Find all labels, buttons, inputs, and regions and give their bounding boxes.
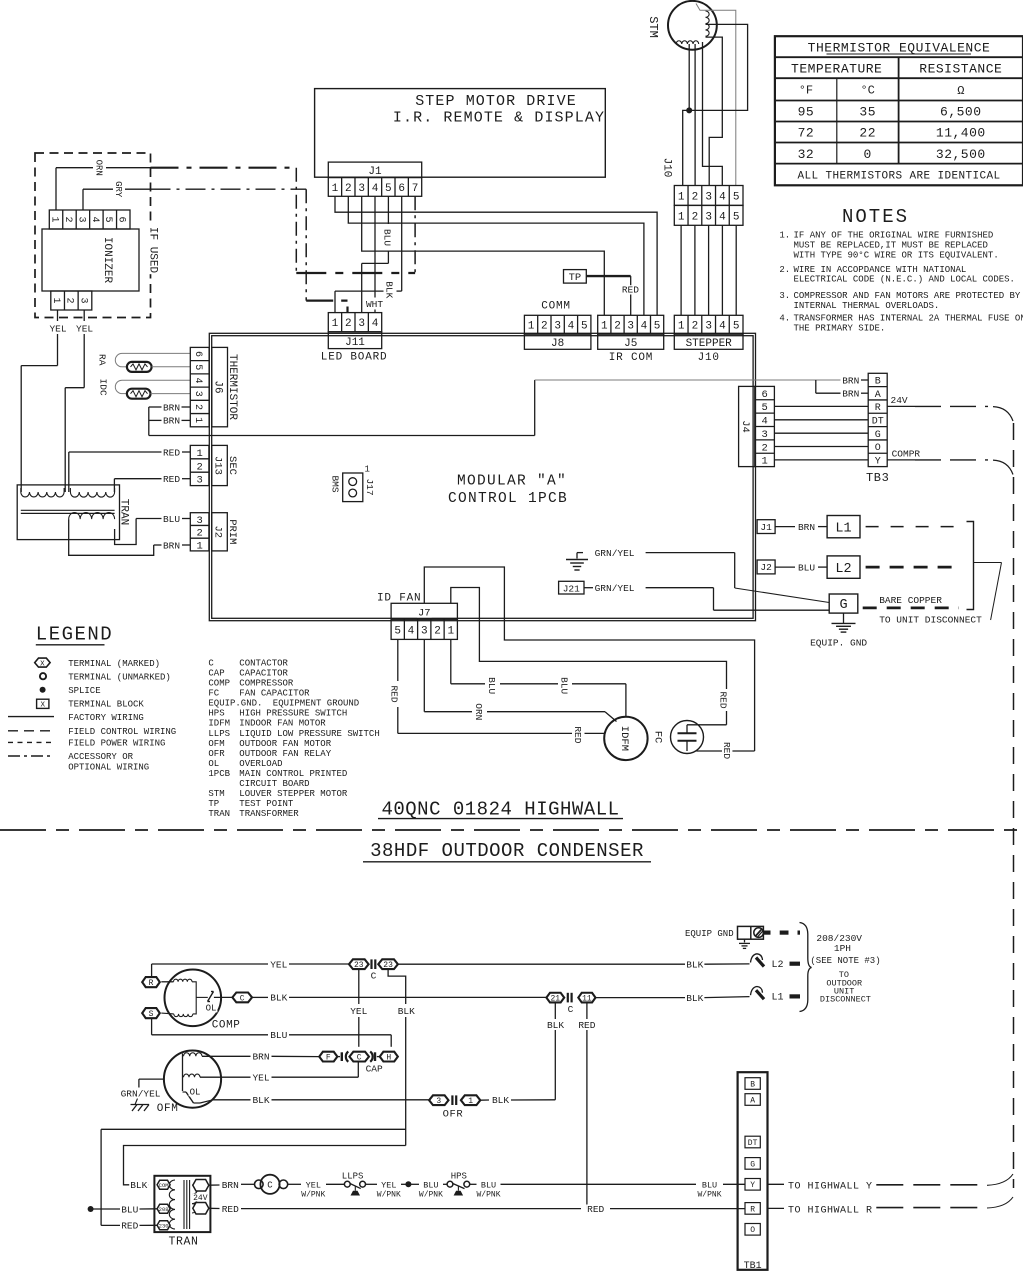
svg-text:1: 1 <box>678 211 685 223</box>
svg-text:BRN: BRN <box>163 402 180 413</box>
connector J17 BMS <box>343 465 370 502</box>
label BLU W/PNK at TB1 <box>696 1181 722 1200</box>
svg-text:BLK: BLK <box>252 1095 269 1106</box>
connector J2 label box <box>212 513 228 551</box>
legend terminal unmarked symbol <box>40 673 46 679</box>
svg-text:OL: OL <box>208 759 219 769</box>
svg-text:FC: FC <box>208 689 219 699</box>
svg-text:TRAN: TRAN <box>208 809 230 819</box>
svg-text:TB1: TB1 <box>744 1261 762 1271</box>
svg-text:DISCONNECT: DISCONNECT <box>820 995 871 1005</box>
label J10 rotated <box>661 158 673 178</box>
splice on STM pin1 wire <box>686 44 692 113</box>
svg-text:BLU: BLU <box>423 1181 438 1191</box>
svg-text:OUTDOOR FAN MOTOR: OUTDOOR FAN MOTOR <box>239 739 331 749</box>
svg-text:2: 2 <box>761 442 767 454</box>
svg-text:BLK: BLK <box>398 1006 415 1017</box>
svg-text:I.R. REMOTE & DISPLAY: I.R. REMOTE & DISPLAY <box>393 110 605 127</box>
label OFM <box>157 1103 179 1115</box>
connector J1 pins 1-7 <box>328 178 421 197</box>
svg-text:Y: Y <box>750 1181 755 1190</box>
connector J6 pins 6-1 <box>190 347 209 426</box>
wire BLK contact 23 branch down to transformer COM <box>124 969 406 1185</box>
wire YEL from R to contactor contact 23 <box>152 964 349 977</box>
label 24V and field wire to right <box>887 395 1013 421</box>
svg-text:OL: OL <box>190 1088 201 1098</box>
label WHT <box>365 299 384 310</box>
run capacitor CAP terminals F C H <box>319 1052 398 1063</box>
svg-text:IDC: IDC <box>97 379 108 396</box>
svg-text:DT: DT <box>872 417 884 428</box>
svg-text:2: 2 <box>196 528 202 540</box>
svg-text:35: 35 <box>859 105 876 120</box>
svg-text:G: G <box>750 1160 755 1169</box>
connector J5 label box <box>598 334 664 350</box>
svg-text:1: 1 <box>528 321 535 333</box>
svg-text:2: 2 <box>434 625 441 637</box>
equipment ground lug and symbol <box>738 926 801 948</box>
svg-text:STEPPER: STEPPER <box>686 338 733 350</box>
label TO UNIT DISCONNECT <box>879 615 982 626</box>
svg-text:2: 2 <box>541 321 548 333</box>
svg-text:4: 4 <box>719 211 726 223</box>
svg-text:MODULAR ″A″: MODULAR ″A″ <box>457 474 567 490</box>
svg-text:L2: L2 <box>772 960 784 971</box>
svg-text:TO HIGHWALL R: TO HIGHWALL R <box>788 1205 873 1216</box>
wire RED TP to J5 pin3 <box>630 276 632 315</box>
svg-text:COMPR: COMPR <box>892 448 921 459</box>
svg-text:IF ANY OF THE ORIGINAL WIRE FU: IF ANY OF THE ORIGINAL WIRE FURNISHED <box>794 231 994 241</box>
svg-text:YEL: YEL <box>76 324 93 335</box>
label BLK <box>685 959 704 970</box>
wire from BLK vertical to transformer 230 tap <box>101 1129 406 1225</box>
legend text TERMINAL (MARKED) <box>68 659 160 669</box>
svg-text:THERMISTOR EQUIVALENCE: THERMISTOR EQUIVALENCE <box>808 41 991 56</box>
svg-text:2: 2 <box>692 321 699 333</box>
label LLPS <box>342 1171 364 1181</box>
svg-text:BRN: BRN <box>842 375 859 386</box>
wire YEL W/PNK coil to LLPS <box>288 1183 345 1185</box>
svg-text:23: 23 <box>383 961 393 970</box>
svg-text:LLPS: LLPS <box>342 1171 364 1181</box>
svg-text:3: 3 <box>358 318 365 330</box>
svg-text:OFM: OFM <box>208 739 224 749</box>
svg-text:5: 5 <box>102 216 113 222</box>
wire BRN bus to TB3 B and A <box>149 380 868 436</box>
svg-text:YEL: YEL <box>381 1181 396 1191</box>
svg-text:YEL: YEL <box>252 1073 269 1084</box>
svg-text:CAP: CAP <box>208 668 224 678</box>
label FC rotated <box>651 731 663 744</box>
svg-text:BLU: BLU <box>702 1181 717 1191</box>
thermistor IDC <box>115 380 190 399</box>
label TO HIGHWALL Y <box>788 1181 873 1192</box>
svg-text:J10: J10 <box>661 158 673 178</box>
svg-text:BRN: BRN <box>222 1180 239 1191</box>
svg-text:BLU: BLU <box>486 677 497 694</box>
svg-text:O: O <box>875 443 881 454</box>
label MODULAR A <box>457 474 567 490</box>
stepper motor STM <box>668 1 717 50</box>
svg-text:5: 5 <box>733 321 740 333</box>
wire STM coil to J10 pin4 <box>703 42 723 186</box>
svg-text:2: 2 <box>64 297 75 303</box>
svg-text:LOUVER STEPPER MOTOR: LOUVER STEPPER MOTOR <box>239 789 348 799</box>
wire BRN transformer to contactor coil <box>208 1183 254 1186</box>
wire STM coil to J10 pin3 <box>706 37 723 185</box>
svg-text:FIELD POWER WIRING: FIELD POWER WIRING <box>68 739 165 749</box>
wire RED contact 11 down to TB1 R line <box>586 1002 588 1208</box>
wire BLU from S to CAP H <box>152 1018 392 1047</box>
label BLK <box>491 1095 510 1106</box>
svg-text:PRIM: PRIM <box>226 519 238 544</box>
disconnect switch L2 <box>751 954 801 971</box>
label SEC rotated <box>226 456 238 475</box>
svg-text:EQUIP GND: EQUIP GND <box>685 929 734 939</box>
label RED <box>162 474 181 485</box>
svg-text:TERMINAL (UNMARKED): TERMINAL (UNMARKED) <box>68 672 171 682</box>
svg-text:2.: 2. <box>779 265 790 275</box>
label RED rotated <box>388 684 400 703</box>
internal wire J7 pin3 to FC (right loop) <box>424 567 754 751</box>
label BLU <box>269 1030 288 1041</box>
svg-text:YEL: YEL <box>49 324 66 335</box>
label BRN <box>162 402 181 413</box>
svg-text:HIGH PRESSURE SWITCH: HIGH PRESSURE SWITCH <box>239 709 347 719</box>
indoor fan motor IDFM <box>604 717 647 760</box>
label RED <box>621 285 640 296</box>
label BLU <box>120 1204 139 1215</box>
label BLU W/PNK <box>475 1181 501 1200</box>
svg-text:1: 1 <box>678 191 685 203</box>
svg-text:72: 72 <box>798 126 815 141</box>
svg-text:1: 1 <box>192 417 203 423</box>
svg-text:TO HIGHWALL Y: TO HIGHWALL Y <box>788 1181 873 1192</box>
svg-text:4: 4 <box>719 191 726 203</box>
label COMM <box>541 301 571 313</box>
note 2 <box>779 265 1015 285</box>
label BRN <box>251 1052 270 1063</box>
svg-text:YEL: YEL <box>270 959 287 970</box>
svg-text:J13: J13 <box>212 456 224 475</box>
svg-text:4: 4 <box>641 321 648 333</box>
svg-text:208: 208 <box>159 1206 169 1213</box>
svg-text:1: 1 <box>468 1097 473 1106</box>
svg-text:RED: RED <box>121 1221 138 1232</box>
svg-text:3: 3 <box>436 1097 441 1106</box>
svg-text:S: S <box>149 1010 154 1019</box>
svg-text:2: 2 <box>192 404 203 410</box>
svg-text:BRN: BRN <box>252 1052 269 1063</box>
svg-text:J6: J6 <box>212 380 224 393</box>
wire GRY from ionizer pin3 to J11 pin2 (accessory dash-dot) <box>83 189 348 312</box>
wire BRN J6 pin1 to TB3 feed <box>149 419 191 421</box>
chassis ground with GRN/YEL (PCB) <box>566 553 829 603</box>
label BLK <box>384 280 396 299</box>
wire YEL W/PNK LLPS to splice <box>366 1181 412 1187</box>
svg-text:3: 3 <box>196 475 202 487</box>
label PRIM rotated <box>226 519 238 544</box>
section divider dashed line <box>0 829 1023 831</box>
svg-text:TP: TP <box>208 799 219 809</box>
fan capacitor FC <box>671 721 704 754</box>
svg-text:6,500: 6,500 <box>940 105 982 120</box>
svg-text:RED: RED <box>587 1204 604 1215</box>
label TO HIGHWALL R <box>788 1205 873 1216</box>
step motor drive / IR remote display box <box>315 89 606 178</box>
svg-text:ORN: ORN <box>93 160 103 176</box>
svg-text:CONTACTOR: CONTACTOR <box>239 658 288 668</box>
wire WHT J1 pin4 to J11 pin4 <box>374 196 376 312</box>
svg-text:OFR: OFR <box>208 749 225 759</box>
label IONIZER <box>101 237 113 284</box>
svg-text:B: B <box>750 1080 755 1089</box>
connector J11 pins 1-4 <box>328 313 381 332</box>
svg-text:EQUIPMENT GROUND: EQUIPMENT GROUND <box>273 699 359 709</box>
label TO OUTDOOR UNIT DISCONNECT <box>820 970 871 1005</box>
svg-text:4: 4 <box>89 216 100 222</box>
wire BRN J6 pin2 to TB3 feed <box>149 407 191 436</box>
svg-text:MUST BE REPLACED,IT MUST BE RE: MUST BE REPLACED,IT MUST BE REPLACED <box>794 240 988 250</box>
svg-text:W/PNK: W/PNK <box>301 1190 325 1199</box>
wire BLK J1 pin6 to J11 pin1 <box>335 196 402 312</box>
wire YEL ionizer pin3 to transformer center tap <box>65 310 84 492</box>
legend text SPLICE <box>68 686 100 696</box>
svg-text:TB3: TB3 <box>866 471 889 485</box>
svg-text:11: 11 <box>582 994 592 1003</box>
label BLK <box>129 1180 148 1191</box>
svg-text:IDFM: IDFM <box>208 719 230 729</box>
wire BLU W/PNK splice to HPS <box>408 1183 447 1185</box>
svg-text:J1: J1 <box>368 166 382 178</box>
svg-text:LED BOARD: LED BOARD <box>321 352 388 364</box>
label ORN <box>93 159 104 177</box>
svg-text:4.: 4. <box>779 313 790 323</box>
svg-text:WITH TYPE 90°C WIRE OR ITS EQU: WITH TYPE 90°C WIRE OR ITS EQUIVALENT. <box>794 250 999 260</box>
svg-text:RA: RA <box>97 354 108 366</box>
label RED rotated <box>572 725 584 744</box>
connector J10 lower row pins 1-5 <box>674 205 743 225</box>
svg-text:BRN: BRN <box>163 416 180 427</box>
label ORN rotated <box>473 702 485 721</box>
label STM <box>646 16 660 38</box>
svg-text:J8: J8 <box>551 338 564 350</box>
svg-text:3: 3 <box>77 297 88 303</box>
svg-text:C: C <box>240 994 245 1003</box>
wire BLU J7 pin1 to IDFM <box>451 639 626 716</box>
legend terminal block symbol <box>37 699 49 709</box>
svg-text:IDFM: IDFM <box>618 726 630 751</box>
svg-text:1: 1 <box>50 297 61 303</box>
outdoor fan motor OFM <box>164 1051 221 1108</box>
ionizer top pin header pins 1-6 <box>48 210 130 229</box>
svg-text:3: 3 <box>554 321 561 333</box>
wires J4 pins to TB3 <box>774 406 868 460</box>
terminal G <box>829 594 858 613</box>
label COMPR and field wire to right <box>887 448 1013 474</box>
connector J8 pins 1-5 <box>524 315 591 334</box>
svg-text:21: 21 <box>550 994 560 1003</box>
svg-text:COMPRESSOR: COMPRESSOR <box>239 679 294 689</box>
svg-text:TO UNIT DISCONNECT: TO UNIT DISCONNECT <box>879 615 982 626</box>
svg-text:R: R <box>149 979 154 988</box>
svg-text:MAIN CONTROL PRINTED: MAIN CONTROL PRINTED <box>239 769 347 779</box>
power supply brace <box>800 923 812 1012</box>
legend terminal marked symbol <box>35 658 50 668</box>
terminal block TB3 <box>868 373 887 467</box>
wire RED J13 pin3 to transformer <box>114 479 190 492</box>
wire BLU J1 pin5 to J11 pin3 <box>362 196 389 312</box>
outdoor fan relay contact OFR 3-1 <box>429 1095 555 1106</box>
svg-text:OUTDOOR FAN RELAY: OUTDOOR FAN RELAY <box>239 749 331 759</box>
svg-text:2: 2 <box>62 216 73 222</box>
legend field power wiring sample <box>8 741 54 743</box>
legend text FIELD POWER WIRING <box>68 739 165 749</box>
notes heading <box>842 206 909 228</box>
legend accessory wiring sample <box>8 755 54 757</box>
svg-text:TRANSFORMER HAS INTERNAL 2A TH: TRANSFORMER HAS INTERNAL 2A THERMAL FUSE… <box>794 313 1023 323</box>
label BLU W/PNK <box>418 1181 444 1200</box>
label BARE COPPER <box>879 595 942 606</box>
wire STM bottom coil to J10 pin2 <box>694 44 696 186</box>
label THERMISTOR rotated <box>226 354 238 420</box>
wire STM coil to J10 pin1 <box>683 24 748 185</box>
svg-text:TRAN: TRAN <box>169 1235 199 1248</box>
svg-text:GRN/YEL: GRN/YEL <box>595 548 635 559</box>
high pressure switch HPS <box>447 1181 470 1195</box>
svg-text:J4: J4 <box>739 420 751 433</box>
svg-text:RED: RED <box>572 726 583 743</box>
svg-text:J7: J7 <box>418 608 431 620</box>
svg-text:5: 5 <box>394 625 401 637</box>
svg-text:INDOOR FAN MOTOR: INDOOR FAN MOTOR <box>239 719 326 729</box>
svg-text:4: 4 <box>372 318 379 330</box>
wire BRN J2 pin1 to transformer <box>69 519 191 555</box>
svg-text:RED: RED <box>717 691 728 708</box>
label YEL W/PNK <box>376 1181 402 1200</box>
label YEL <box>48 324 67 335</box>
svg-text:SPLICE: SPLICE <box>68 686 100 696</box>
label ID FAN <box>377 593 421 605</box>
svg-text:BARE COPPER: BARE COPPER <box>879 595 942 606</box>
label BRN <box>841 389 860 400</box>
ionizer module body <box>42 229 139 291</box>
svg-text:2: 2 <box>692 191 699 203</box>
contactor contact 23-23 <box>349 959 398 970</box>
svg-text:WIRE IN ACCOPDANCE WITH NATION: WIRE IN ACCOPDANCE WITH NATIONAL <box>794 265 967 275</box>
svg-text:COMPRESSOR AND FAN MOTORS ARE: COMPRESSOR AND FAN MOTORS ARE PROTECTED … <box>794 291 1021 301</box>
label BLU <box>797 562 816 573</box>
transformer TRAN (indoor) <box>17 485 119 540</box>
svg-text:3: 3 <box>196 515 202 527</box>
label BMS rotated <box>329 475 340 492</box>
svg-text:C: C <box>568 1004 574 1015</box>
legend splice symbol <box>40 687 46 693</box>
svg-text:TERMINAL (MARKED): TERMINAL (MARKED) <box>68 659 160 669</box>
svg-text:RED: RED <box>163 474 180 485</box>
connector J4 label box <box>739 386 755 466</box>
svg-text:24V: 24V <box>891 395 908 406</box>
label RED <box>162 447 181 458</box>
svg-text:L1: L1 <box>835 522 851 537</box>
svg-text:ALL THERMISTORS ARE IDENTICAL: ALL THERMISTORS ARE IDENTICAL <box>797 171 1000 183</box>
wire YEL contact 23 down to CAP C <box>358 969 360 1047</box>
connector J7 label box <box>391 603 457 619</box>
connector J13 pins 1-3 <box>190 445 209 486</box>
wire RED transformer 24V to TB1 R <box>208 1207 745 1209</box>
label BLU <box>162 514 181 525</box>
label IF USED <box>147 226 161 274</box>
connector J5 pins 1-5 <box>598 315 664 334</box>
svg-text:OPTIONAL WIRING: OPTIONAL WIRING <box>68 762 149 772</box>
liquid low pressure switch LLPS <box>344 1181 365 1195</box>
svg-text:0: 0 <box>864 147 872 162</box>
svg-text:BLK: BLK <box>130 1180 147 1191</box>
transformer TRAN (outdoor) <box>154 1176 210 1232</box>
label EQUIP GND <box>685 929 734 939</box>
svg-text:W/PNK: W/PNK <box>377 1190 401 1199</box>
svg-text:3.: 3. <box>779 291 790 301</box>
connector J2 (line) box <box>757 560 775 574</box>
connector J7 pins 5-1 <box>391 619 457 639</box>
label HPS <box>451 1171 467 1181</box>
svg-text:5: 5 <box>733 191 740 203</box>
label LED BOARD <box>321 352 388 364</box>
svg-text:6: 6 <box>192 351 203 357</box>
svg-text:J17: J17 <box>364 478 375 495</box>
svg-text:5: 5 <box>761 402 767 414</box>
label RED rotated <box>717 690 729 709</box>
terminal C <box>232 993 252 1004</box>
svg-text:J5: J5 <box>624 338 637 350</box>
wire BLK contact 23 to outdoor disconnect <box>398 963 750 965</box>
svg-text:32,500: 32,500 <box>936 147 986 162</box>
compressor COMP <box>161 970 232 1027</box>
terminal S <box>142 1008 160 1019</box>
svg-text:TRANSFORMER: TRANSFORMER <box>239 809 299 819</box>
svg-text:L1: L1 <box>772 993 784 1004</box>
label YEL <box>349 1006 368 1017</box>
thermistor equivalence table <box>775 36 1023 185</box>
wire TO HIGHWALL R <box>768 1197 1014 1208</box>
svg-text:1: 1 <box>196 540 202 552</box>
label 208/230V 1PH (SEE NOTE #3) <box>810 933 880 966</box>
svg-text:38HDF OUTDOOR CONDENSER: 38HDF OUTDOOR CONDENSER <box>370 840 644 862</box>
svg-text:HPS: HPS <box>208 709 224 719</box>
label YEL <box>251 1073 270 1084</box>
wire BLU J2 to L2 <box>775 566 827 568</box>
svg-text:5: 5 <box>385 183 392 195</box>
label YEL W/PNK <box>300 1181 326 1200</box>
svg-text:BMS: BMS <box>329 475 340 492</box>
legend heading <box>36 624 113 646</box>
svg-text:3: 3 <box>75 216 86 222</box>
svg-text:STM: STM <box>646 16 660 38</box>
label IDC <box>97 379 108 396</box>
svg-text:CIRCUIT BOARD: CIRCUIT BOARD <box>239 779 309 789</box>
label YEL <box>269 959 288 970</box>
label TRAN <box>169 1235 199 1248</box>
svg-text:GRY: GRY <box>113 181 123 198</box>
label CONTROL 1PCB <box>448 491 568 507</box>
svg-text:3: 3 <box>705 191 712 203</box>
wire BLK OFM to OFR <box>213 1099 429 1101</box>
wire YEL ionizer pin1 to transformer <box>21 310 57 492</box>
svg-text:5: 5 <box>192 364 203 370</box>
svg-text:Y: Y <box>875 457 881 468</box>
wire BRN OFM to CAP F <box>202 1055 319 1057</box>
svg-text:C: C <box>267 1181 273 1191</box>
